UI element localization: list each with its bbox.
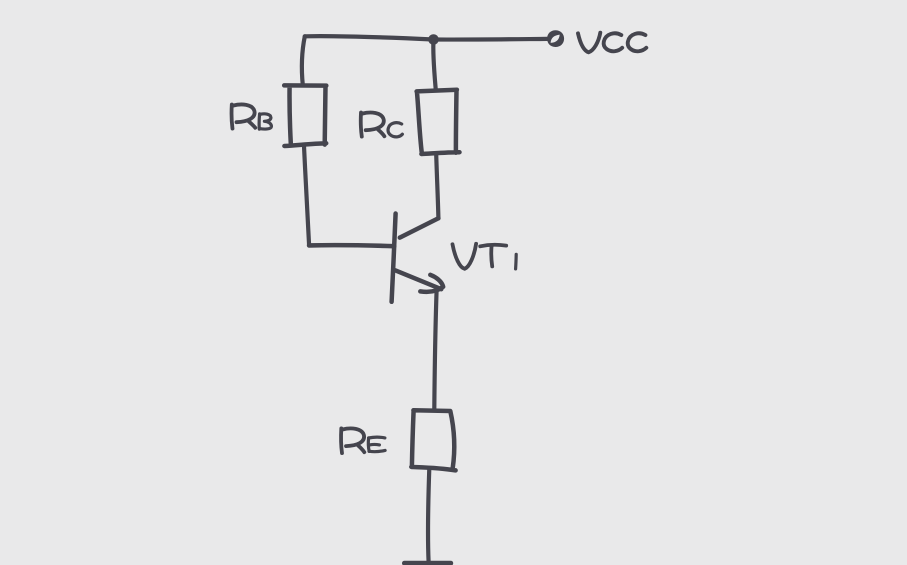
wire junction to VCC terminal — [434, 37, 548, 42]
label VT1 — [453, 244, 517, 269]
resistor RE — [411, 410, 455, 470]
node junction dot — [428, 34, 439, 45]
wire top rail (corner to junction) — [305, 36, 434, 39]
wire rail corner down to RB top — [302, 36, 305, 85]
VCC terminal circle — [547, 30, 564, 47]
label RE — [341, 428, 385, 453]
transistor VT1 — [392, 214, 444, 302]
wire RE bottom to ground — [428, 468, 429, 562]
wire RB bottom to base corner — [304, 146, 309, 245]
label RC — [361, 113, 403, 137]
wire emitter down to RE — [434, 290, 436, 410]
resistor RB — [284, 85, 326, 146]
wire collector (RC bottom to transistor) — [436, 154, 438, 218]
resistor RC — [417, 90, 460, 154]
label VCC — [578, 33, 646, 53]
wire RC top (junction down to RC) — [433, 40, 436, 91]
label RB — [232, 104, 272, 129]
wire base horizontal — [309, 245, 394, 246]
ground — [405, 561, 451, 565]
